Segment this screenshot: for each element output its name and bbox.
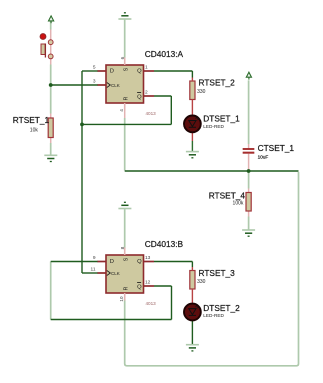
svg-text:RTSET_4: RTSET_4 [209,190,246,200]
svg-text:RTSET_1: RTSET_1 [13,115,50,125]
svg-text:RTSET_3: RTSET_3 [199,268,236,278]
svg-text:12: 12 [145,280,151,286]
svg-text:2: 2 [145,90,148,96]
svg-text:11: 11 [91,267,96,273]
svg-text:330: 330 [197,279,206,285]
svg-text:10uF: 10uF [258,154,269,159]
svg-text:330: 330 [197,89,206,95]
svg-text:10k: 10k [30,127,39,133]
svg-text:S: S [123,67,129,71]
svg-text:6: 6 [120,56,126,59]
svg-text:D: D [110,69,114,75]
svg-text:CD4013:B: CD4013:B [145,239,184,249]
svg-text:DTSET_2: DTSET_2 [203,303,240,313]
svg-text:Q: Q [137,94,142,100]
svg-text:9: 9 [93,255,96,261]
svg-text:LED-RED: LED-RED [203,124,224,129]
svg-text:13: 13 [145,255,151,261]
svg-text:Q: Q [137,259,142,265]
svg-text:CTSET_1: CTSET_1 [258,143,295,153]
svg-text:4: 4 [119,109,125,112]
svg-text:D: D [110,259,114,265]
svg-text:R: R [124,96,130,100]
svg-text:CD4013:A: CD4013:A [145,49,184,59]
svg-text:CLK: CLK [111,271,120,276]
svg-text:R: R [124,286,130,290]
svg-text:10: 10 [119,296,125,302]
svg-text:Q: Q [137,69,142,75]
svg-text:4013: 4013 [146,301,157,306]
svg-text:CLK: CLK [111,83,120,88]
svg-text:3: 3 [93,79,96,85]
svg-text:Q: Q [137,284,142,290]
svg-text:5: 5 [93,65,96,71]
svg-text:8: 8 [120,246,126,249]
svg-text:100k: 100k [233,201,244,207]
svg-text:S: S [123,257,129,261]
svg-text:DTSET_1: DTSET_1 [203,114,240,124]
svg-text:4013: 4013 [146,111,157,116]
svg-text:RTSET_2: RTSET_2 [199,78,236,88]
svg-text:1: 1 [145,65,148,71]
svg-text:LED-RED: LED-RED [203,313,224,318]
